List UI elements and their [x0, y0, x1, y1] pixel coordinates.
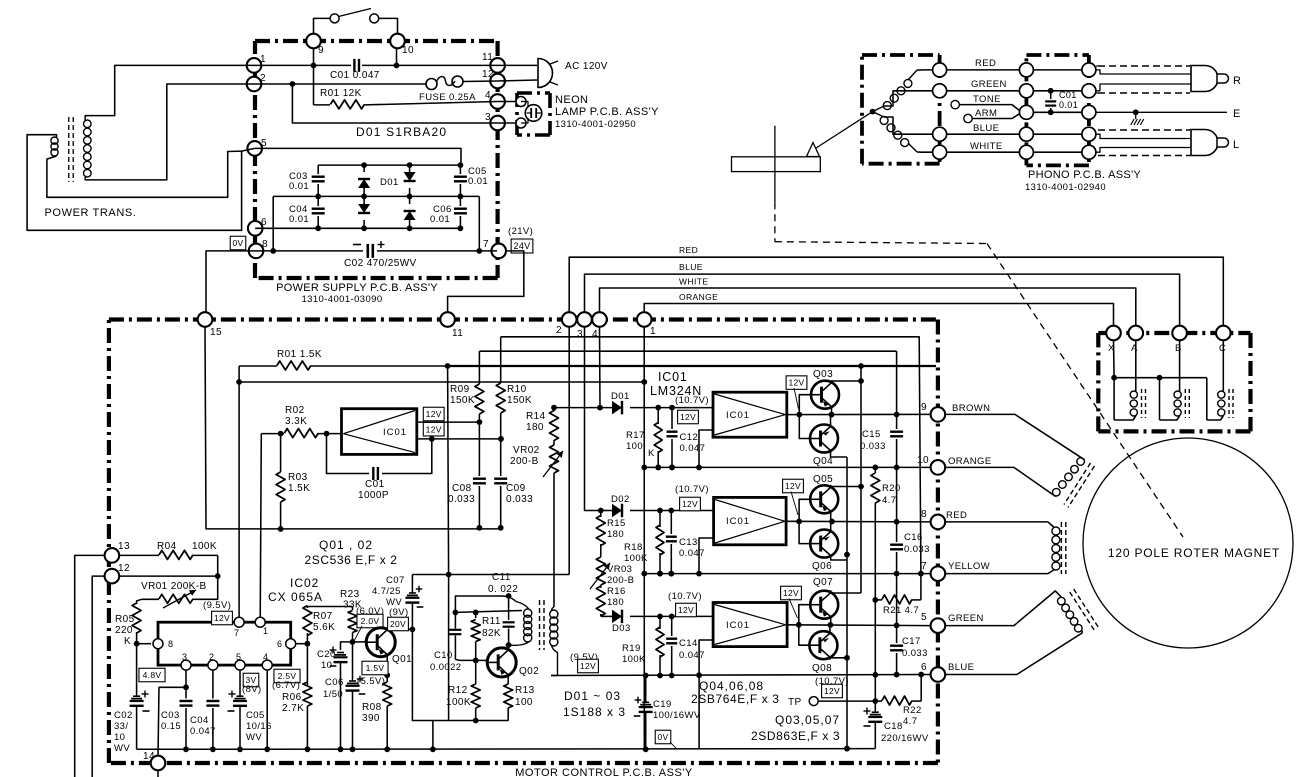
svg-text:180: 180: [607, 529, 624, 540]
label 12V Q05 base: [783, 479, 804, 493]
cartridge terminal GREEN: [933, 84, 947, 98]
svg-text:0.047: 0.047: [190, 726, 216, 737]
svg-text:6: 6: [277, 639, 282, 649]
svg-text:5: 5: [261, 138, 267, 149]
svg-text:R06: R06: [282, 692, 302, 703]
resistor R08 390: [386, 675, 388, 682]
svg-text:CX 065A: CX 065A: [268, 590, 323, 604]
svg-text:ARM: ARM: [975, 108, 997, 119]
terminal 13: [105, 548, 120, 563]
resistor R21 4.7: [875, 599, 882, 601]
bridge top bus: [318, 164, 460, 166]
stator coil 1: [1077, 458, 1085, 466]
oscillator transformer left winding: [516, 602, 529, 610]
svg-text:R15: R15: [607, 518, 626, 529]
svg-text:C14: C14: [679, 638, 698, 649]
svg-text:100K: 100K: [192, 541, 217, 552]
terminal 10: [390, 34, 405, 49]
wire terminal 12 left: [92, 576, 105, 777]
svg-text:Q02: Q02: [519, 666, 539, 677]
svg-text:120 POLE ROTER MAGNET: 120 POLE ROTER MAGNET: [1108, 546, 1280, 560]
svg-text:C20: C20: [317, 649, 336, 660]
label 20V: [388, 617, 409, 631]
svg-text:2SD863E,F x 3: 2SD863E,F x 3: [751, 729, 840, 743]
svg-text:1.5V: 1.5V: [366, 663, 385, 673]
shield dashed L: [1098, 129, 1190, 131]
label 0V board: [655, 730, 671, 744]
IC02 pin 5: [235, 660, 245, 670]
svg-text:12V: 12V: [788, 378, 804, 388]
terminal 10 ORANGE: [931, 460, 946, 475]
capacitor C07 4.7/25WV: [411, 575, 413, 594]
wire Q04 collector to ground column: [831, 453, 848, 458]
svg-text:5: 5: [236, 652, 241, 662]
wire ORANGE signal line: [644, 304, 1113, 327]
svg-text:C06: C06: [325, 677, 344, 688]
IC02 box: [158, 622, 291, 665]
svg-text:8: 8: [921, 509, 927, 520]
wire RED cartridge to phono pcb: [947, 69, 1020, 71]
tone arm ground ARM: [964, 114, 972, 122]
svg-text:IC02: IC02: [290, 576, 319, 590]
fuse 0.25A: [426, 79, 437, 90]
capacitor C13 0.047: [670, 511, 672, 535]
transistor Q02: [487, 648, 516, 677]
resistor R07 5.6K: [306, 607, 308, 609]
svg-text:1310-4001-03090: 1310-4001-03090: [301, 294, 382, 305]
tone arm vertical line: [774, 126, 776, 203]
terminal 7 YELLOW: [931, 566, 946, 581]
svg-text:12V: 12V: [682, 499, 698, 509]
svg-text:15: 15: [210, 327, 222, 338]
svg-text:C04: C04: [190, 715, 209, 726]
svg-text:6: 6: [261, 217, 267, 228]
svg-text:4.7: 4.7: [903, 716, 917, 727]
resistor R03 1.5K: [280, 434, 282, 472]
svg-text:LAMP P.C.B. ASS'Y: LAMP P.C.B. ASS'Y: [555, 106, 659, 118]
svg-text:(5.5V): (5.5V): [357, 676, 385, 687]
svg-text:C11: C11: [492, 572, 511, 583]
svg-text:0V: 0V: [658, 732, 669, 742]
svg-text:C02: C02: [114, 710, 133, 721]
label 12V upper output: [423, 407, 444, 421]
svg-text:20V: 20V: [390, 619, 406, 629]
svg-text:(8V): (8V): [242, 684, 262, 695]
svg-text:D01 S1RBA20: D01 S1RBA20: [356, 125, 447, 139]
RCA plug R: [1191, 66, 1218, 92]
capacitor C20 10: [341, 642, 353, 650]
feedback ch3: [699, 640, 713, 675]
svg-text:200-B: 200-B: [607, 575, 634, 586]
terminal 2: [247, 77, 262, 92]
collector supply column: [860, 366, 862, 593]
power transformer core: [68, 117, 70, 182]
svg-text:R05: R05: [115, 614, 135, 625]
junction node at 9 column: [311, 63, 317, 69]
terminal 12: [490, 74, 505, 89]
feedback ch1: [699, 430, 713, 467]
node line ch3 to terminal 5: [787, 624, 931, 627]
bridge middle bus: [273, 195, 479, 197]
svg-text:(9.5V): (9.5V): [203, 600, 231, 611]
svg-text:TONE: TONE: [973, 94, 1001, 105]
phono pcb terminal right: [1082, 63, 1096, 77]
svg-text:180: 180: [607, 597, 624, 608]
svg-text:PHONO P.C.B. ASS'Y: PHONO P.C.B. ASS'Y: [1028, 169, 1141, 181]
test point TP: [809, 697, 818, 706]
svg-text:0.15: 0.15: [161, 721, 181, 732]
svg-text:2: 2: [209, 652, 214, 662]
svg-text:150K: 150K: [450, 395, 475, 406]
svg-text:8: 8: [262, 239, 268, 250]
label 12V osc: [578, 659, 599, 673]
label 12V Q03 base: [786, 376, 807, 390]
svg-text:D01: D01: [611, 391, 630, 402]
svg-text:R07: R07: [313, 611, 333, 622]
svg-text:R01 1.5K: R01 1.5K: [277, 349, 322, 360]
svg-text:1: 1: [260, 54, 266, 65]
svg-text:1310-4001-02950: 1310-4001-02950: [555, 119, 636, 130]
svg-text:C07: C07: [386, 575, 405, 586]
svg-text:0.0022: 0.0022: [430, 662, 461, 673]
wire terminal 4 column to D01 line: [599, 327, 602, 408]
terminal C: [1216, 326, 1231, 341]
terminal 9 BROWN: [931, 407, 946, 422]
op-amp A upper output to R09: [417, 421, 480, 423]
wire terminal 1 to terminal 11 (C01 line): [254, 64, 351, 66]
svg-text:R02: R02: [285, 405, 305, 416]
wire terminal 8 to terminal 7 (C02 line): [256, 250, 363, 252]
neon terminal upper: [498, 101, 517, 103]
feedback ch2: [699, 538, 714, 574]
svg-text:0.01: 0.01: [430, 214, 450, 225]
svg-text:IC01: IC01: [726, 516, 750, 527]
svg-text:POWER SUPPLY P.C.B. ASS'Y: POWER SUPPLY P.C.B. ASS'Y: [276, 282, 438, 294]
svg-text:2.0V: 2.0V: [361, 616, 380, 626]
wire Q02 collector: [507, 646, 509, 648]
svg-text:0.033: 0.033: [904, 544, 930, 555]
svg-text:0.047: 0.047: [679, 548, 705, 559]
wire coil lower to WHITE terminal: [917, 151, 933, 153]
svg-text:(6.7V): (6.7V): [272, 680, 300, 691]
wire Q05 collector to supply: [831, 486, 861, 488]
svg-text:100: 100: [515, 697, 533, 708]
terminal 11 board: [440, 312, 455, 327]
label 1.5V: [362, 661, 388, 675]
label 2.5V: [274, 669, 300, 683]
wire L channel pair: [1096, 134, 1191, 138]
svg-text:4: 4: [485, 90, 491, 101]
diode D01-a: [363, 165, 365, 172]
terminal B: [1172, 326, 1187, 341]
svg-text:4: 4: [263, 652, 268, 662]
svg-text:IC01: IC01: [726, 410, 750, 421]
wire Q03 collector to supply: [832, 380, 862, 382]
sensor coil A: [1135, 340, 1137, 391]
wire Q05 base: [799, 499, 811, 521]
motor rotor circle: [1083, 438, 1293, 648]
phono pcb terminal left: [1019, 63, 1033, 77]
svg-text:R01 12K: R01 12K: [320, 88, 362, 99]
svg-text:(10.7V): (10.7V): [675, 484, 709, 495]
terminal 8: [249, 244, 264, 259]
svg-text:C03: C03: [161, 710, 180, 721]
svg-text:K: K: [648, 448, 655, 459]
svg-text:Q03: Q03: [813, 369, 833, 380]
svg-text:C02 470/25WV: C02 470/25WV: [344, 258, 417, 269]
IC02 pin 7: [234, 617, 244, 627]
resistor R15 180: [600, 511, 602, 518]
phono pcb terminal right: [1082, 105, 1096, 119]
svg-text:C09: C09: [506, 483, 526, 494]
label 12V ch2: [680, 497, 701, 511]
svg-text:R13: R13: [515, 685, 535, 696]
svg-text:VR01 200K-B: VR01 200K-B: [141, 581, 207, 592]
neon lamp P.C.B. box: [517, 91, 550, 95]
svg-text:C08: C08: [452, 483, 472, 494]
label 0V: [230, 236, 246, 250]
svg-text:IC01: IC01: [383, 427, 407, 438]
capacitor C14 0.047: [671, 616, 673, 636]
op-amp IC01 block C ch2: [714, 497, 787, 544]
diode D01-d: [409, 196, 411, 204]
resistor R01 1.5K: [239, 365, 277, 367]
wire coil upper tap to GREEN terminal: [884, 91, 933, 106]
resistor R05 220K: [137, 599, 142, 604]
svg-text:0.033: 0.033: [506, 494, 533, 505]
wire 20V rail from terminal 11 column: [412, 574, 569, 576]
svg-text:IC01: IC01: [726, 620, 750, 631]
svg-text:1: 1: [650, 326, 656, 337]
shield dashed R: [1098, 65, 1190, 67]
svg-text:C19: C19: [653, 699, 672, 710]
svg-text:L: L: [1233, 139, 1240, 151]
wire coil upper to RED terminal: [917, 69, 933, 71]
phono P.C.B. box border: [1026, 53, 1089, 57]
label 12V TP: [822, 684, 843, 698]
svg-text:R23: R23: [340, 589, 360, 600]
phono pcb inner wires: [1033, 69, 1082, 71]
resistor R02 3.3K: [261, 433, 284, 435]
svg-text:4.8V: 4.8V: [143, 670, 162, 680]
label 12V ch3: [676, 603, 697, 617]
svg-text:C10: C10: [434, 650, 453, 661]
svg-text:12V: 12V: [680, 412, 696, 422]
phono pcb terminal left: [1019, 84, 1033, 98]
wire secondary bottom to terminal 2: [85, 84, 254, 180]
junction node at 10 column: [394, 63, 400, 69]
stator coil 3: [1058, 597, 1066, 605]
potentiometer VR02 200-B: [550, 445, 559, 473]
svg-text:C16: C16: [904, 532, 923, 543]
svg-text:K: K: [124, 636, 131, 647]
wire middle bus right leg: [478, 196, 480, 251]
svg-text:3: 3: [577, 329, 583, 340]
tone arm pivot triangle: [807, 143, 820, 157]
svg-text:150K: 150K: [507, 395, 532, 406]
svg-text:11: 11: [452, 328, 463, 339]
resistor R22 4.7: [875, 700, 882, 702]
bias column R20: [874, 467, 876, 473]
svg-text:R21 4.7: R21 4.7: [883, 605, 919, 616]
wire terminal 12 to VR01: [119, 575, 218, 577]
svg-text:C17: C17: [902, 636, 921, 647]
svg-text:1000P: 1000P: [358, 490, 389, 501]
svg-text:100/16WV: 100/16WV: [653, 710, 701, 721]
wire terminal 14 to C03 node: [158, 687, 186, 756]
wire pin 6 to R06 R07 column: [296, 643, 308, 645]
svg-text:7: 7: [921, 561, 927, 572]
svg-text:100: 100: [626, 441, 643, 452]
resistor R16 180: [600, 585, 602, 588]
svg-text:6: 6: [921, 662, 927, 673]
IC02 pin 8: [153, 639, 163, 649]
svg-text:5: 5: [921, 612, 927, 623]
svg-text:4.7: 4.7: [882, 495, 896, 506]
terminal 3: [490, 116, 505, 131]
svg-text:11: 11: [482, 52, 493, 63]
capacitor C04 0.047: [212, 670, 214, 698]
wire Q07 base: [799, 605, 811, 625]
svg-text:10: 10: [917, 455, 929, 466]
svg-text:12V: 12V: [580, 661, 596, 671]
wire C07 column down to bottom line: [412, 629, 508, 720]
svg-text:0V: 0V: [233, 238, 244, 248]
resistor R01 12K: [313, 65, 315, 105]
wire switch to terminal 10: [379, 18, 398, 34]
resistor R19 100K: [659, 616, 661, 629]
svg-text:MOTOR CONTROL P.C.B. ASS'Y: MOTOR CONTROL P.C.B. ASS'Y: [515, 767, 693, 777]
svg-text:R16: R16: [607, 586, 626, 597]
svg-text:BROWN: BROWN: [952, 403, 990, 414]
capacitor C01 0.047: [353, 59, 355, 72]
wire coil lower tap to BLUE terminal: [884, 117, 933, 134]
diode D01-b: [409, 165, 411, 172]
ground collector column: [846, 457, 848, 749]
wire Q03 emitter to node: [831, 409, 833, 415]
wire Q06 collector to ground column: [831, 558, 847, 560]
svg-text:7: 7: [483, 239, 489, 250]
svg-text:C13: C13: [679, 537, 698, 548]
motor control P.C.B. border: [109, 317, 938, 321]
svg-text:Q05: Q05: [813, 474, 833, 485]
svg-text:0.033: 0.033: [860, 441, 886, 452]
svg-text:POWER TRANS.: POWER TRANS.: [45, 207, 137, 219]
wire E ground line: [1096, 111, 1227, 113]
wire 24V terminal 7 to motor board terminal 11: [448, 251, 524, 313]
label 2.0V: [357, 614, 383, 628]
label 12V IC02: [212, 611, 233, 625]
svg-text:33/: 33/: [114, 721, 128, 732]
diode D03: [601, 615, 612, 617]
wire pin1 column of IC02: [260, 434, 261, 623]
cartridge terminal BLUE: [933, 127, 947, 141]
svg-text:AC 120V: AC 120V: [565, 61, 608, 72]
capacitor column C15 C16 C17: [896, 351, 898, 429]
svg-text:RED: RED: [946, 510, 967, 521]
svg-text:82K: 82K: [482, 628, 501, 639]
op-amp IC01 block B ch1: [713, 392, 787, 437]
wire BLUE signal line: [585, 274, 1180, 326]
svg-text:2.7K: 2.7K: [282, 703, 304, 714]
svg-text:0.033: 0.033: [448, 494, 475, 505]
terminal 4 board: [592, 312, 607, 327]
svg-text:0.033: 0.033: [902, 648, 928, 659]
svg-text:C05: C05: [246, 710, 265, 721]
power supply P.C.B. border: [255, 39, 498, 43]
svg-text:2: 2: [260, 73, 266, 84]
op-amp IC01 block A: [342, 409, 417, 455]
svg-text:C15: C15: [862, 429, 881, 440]
wire secondary top to terminal 1: [85, 65, 254, 120]
svg-text:VR03: VR03: [607, 564, 632, 575]
wire Q04 base: [799, 415, 810, 439]
wire R channel pair: [1096, 70, 1191, 74]
terminal X: [1106, 326, 1121, 341]
svg-text:0.01: 0.01: [289, 181, 309, 192]
svg-text:0.047: 0.047: [680, 443, 706, 454]
power switch S1: [330, 14, 339, 23]
svg-text:Q04,06,08: Q04,06,08: [699, 679, 764, 693]
capacitor C11 0.022: [508, 596, 510, 620]
wire BROWN to stator coil 1: [945, 414, 1085, 459]
capacitor C01 0.01 phono: [1048, 88, 1054, 94]
svg-text:100K: 100K: [446, 697, 471, 708]
svg-text:Q01: Q01: [392, 654, 412, 665]
svg-text:R03: R03: [288, 472, 308, 483]
terminal 5 GREEN: [931, 618, 946, 633]
terminal 5: [247, 141, 262, 156]
IC02 pin 2: [208, 660, 218, 670]
svg-text:4: 4: [592, 329, 598, 340]
svg-text:Q07: Q07: [813, 577, 833, 588]
wire pin7 column of IC02: [238, 366, 240, 622]
wire terminal 15 column: [205, 327, 501, 529]
terminal 11: [490, 58, 505, 73]
wire BLUE line to bottom rail: [698, 675, 700, 748]
svg-text:10: 10: [402, 45, 414, 56]
svg-text:(21V): (21V): [508, 226, 533, 237]
wire RED signal line: [569, 257, 1223, 326]
wire YELLOW return line ch2: [644, 573, 931, 575]
transistor Q04: [810, 425, 838, 453]
svg-text:9: 9: [318, 45, 324, 56]
label 24V: [511, 239, 533, 253]
wire Q08 emitter to node: [829, 625, 831, 631]
label 3V: [243, 673, 259, 687]
wire terminal 11 column down: [448, 366, 449, 575]
svg-text:24V: 24V: [514, 241, 531, 251]
cartridge coil lower: [880, 116, 888, 124]
svg-text:2SC536 E,F x 2: 2SC536 E,F x 2: [304, 553, 397, 567]
svg-text:8: 8: [168, 639, 173, 649]
svg-text:Q08: Q08: [812, 663, 832, 674]
terminal 4: [490, 94, 505, 109]
ground symbol on E line: [1133, 109, 1139, 115]
wire terminal 2 to fuse to terminal 12: [254, 83, 426, 85]
capacitor C06 1/50: [352, 642, 354, 681]
terminal 8 RED: [931, 515, 946, 530]
op-amp A lower output to R10: [417, 438, 501, 440]
svg-text:TP: TP: [788, 697, 802, 708]
svg-text:D03: D03: [612, 623, 631, 634]
svg-text:(9V): (9V): [389, 607, 409, 618]
wire Q02 base: [476, 659, 488, 661]
svg-text:C01 0.047: C01 0.047: [330, 70, 380, 81]
svg-text:R18: R18: [624, 542, 643, 553]
svg-text:12V: 12V: [214, 613, 230, 623]
potentiometer VR01 200K-B: [141, 598, 159, 600]
